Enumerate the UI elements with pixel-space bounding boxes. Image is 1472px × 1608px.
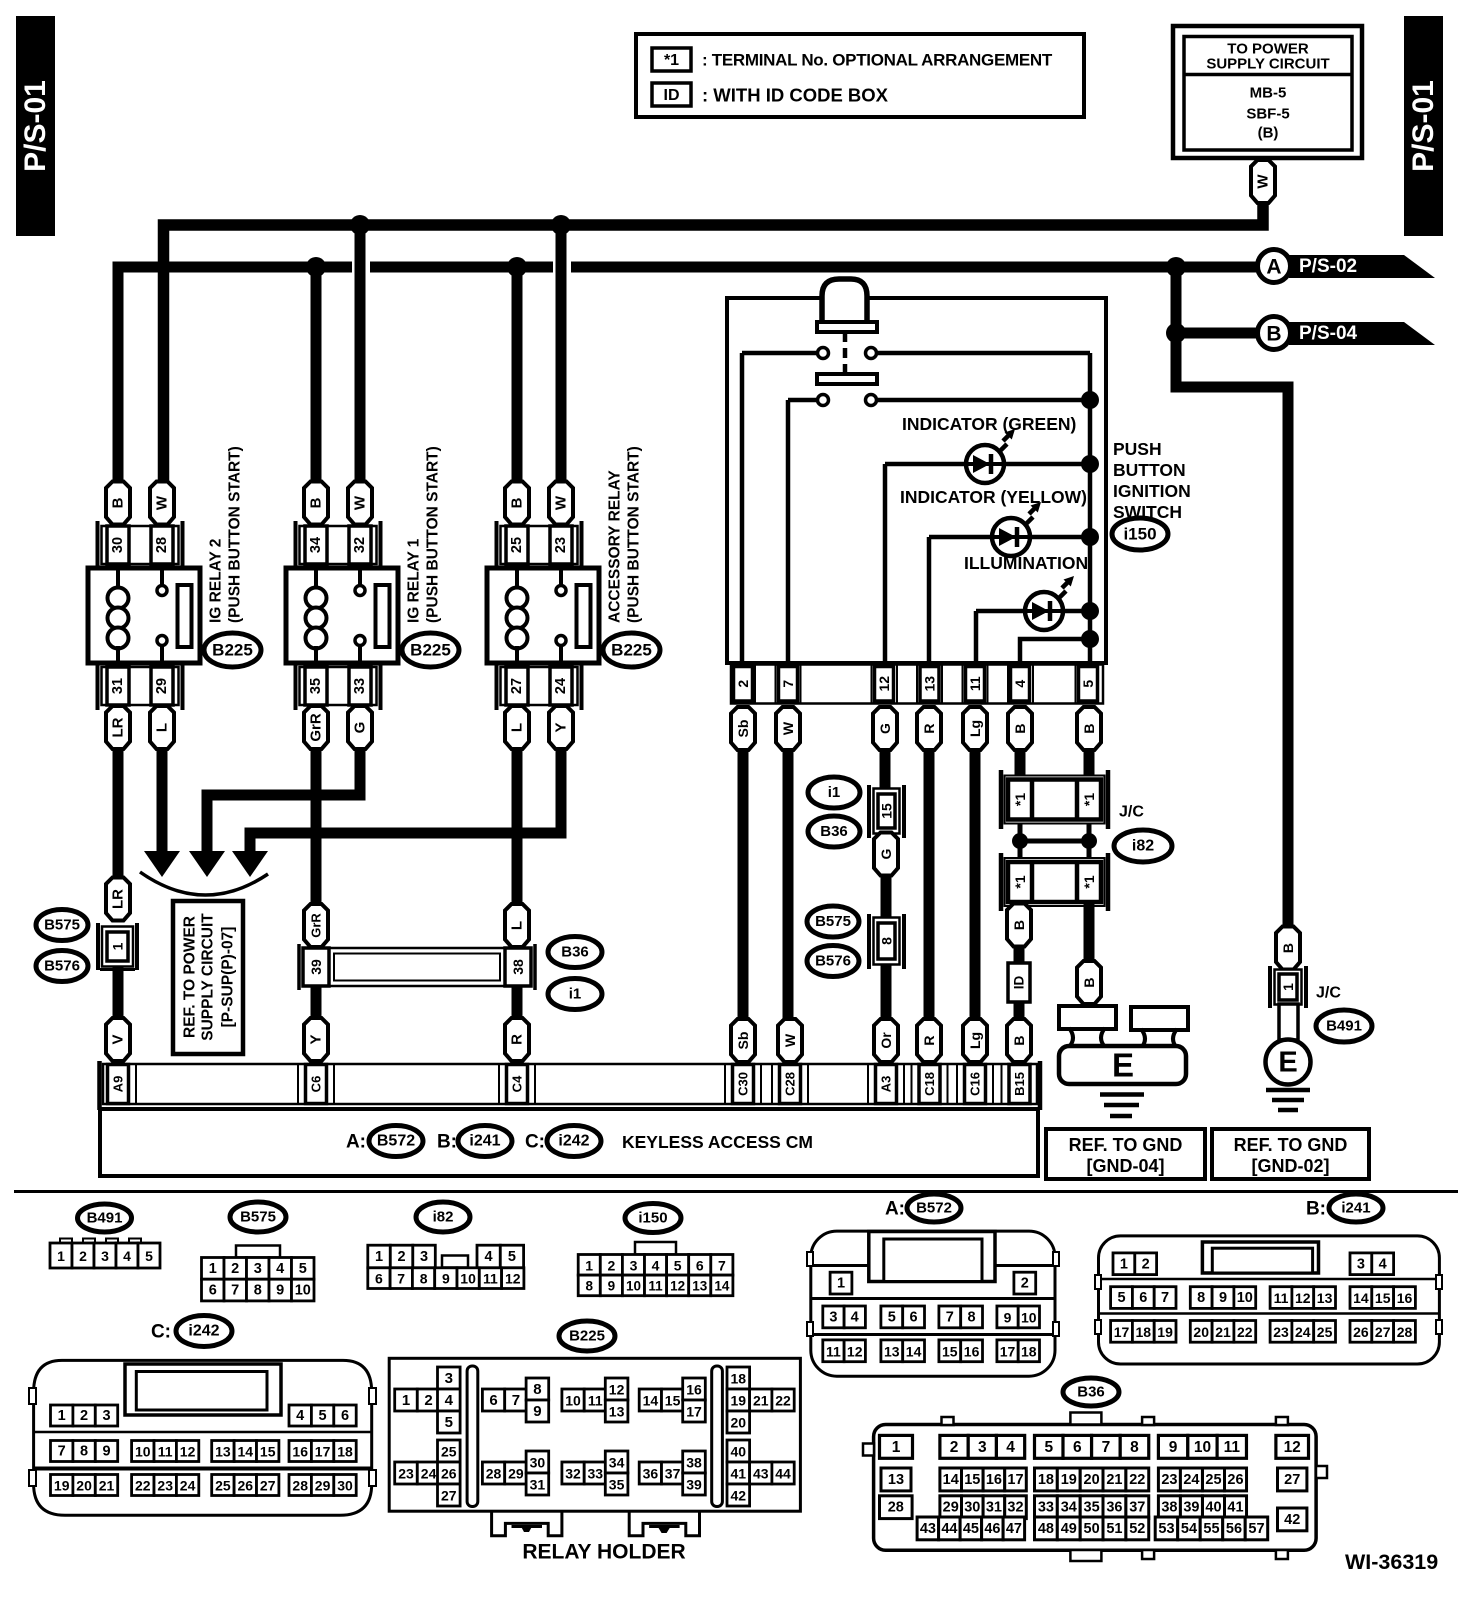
- svg-text:12: 12: [1284, 1439, 1301, 1456]
- svg-text:*1: *1: [1081, 793, 1097, 806]
- svg-text:7: 7: [231, 1283, 239, 1299]
- svg-text:14: 14: [714, 1278, 730, 1293]
- svg-text:B576: B576: [44, 958, 80, 975]
- svg-text:2: 2: [1142, 1256, 1150, 1272]
- terminal W from power supply: [1251, 160, 1275, 203]
- svg-text:B: B: [1012, 723, 1028, 733]
- svg-text:24: 24: [180, 1478, 196, 1494]
- svg-text:*1: *1: [1081, 875, 1097, 888]
- svg-text:35: 35: [609, 1477, 625, 1493]
- svg-text:19: 19: [1157, 1324, 1173, 1340]
- svg-text:i241: i241: [1341, 1200, 1370, 1217]
- page banner P/S-01 left: [16, 16, 55, 236]
- svg-text:9: 9: [533, 1403, 541, 1420]
- ref to gnd GND-04 box: [1046, 1129, 1205, 1179]
- wire W power bus: [164, 203, 1264, 482]
- svg-text:8: 8: [1130, 1439, 1139, 1456]
- svg-text:37: 37: [665, 1466, 681, 1482]
- svg-text:30: 30: [110, 537, 126, 553]
- svg-text:W: W: [780, 721, 796, 735]
- svg-text:15: 15: [964, 1472, 980, 1488]
- svg-text:20: 20: [1084, 1472, 1100, 1488]
- svg-text:B491: B491: [1326, 1018, 1362, 1035]
- svg-text:4: 4: [1006, 1439, 1015, 1456]
- svg-text:A9: A9: [111, 1076, 126, 1093]
- wire pin2 column: [740, 353, 745, 664]
- svg-text:16: 16: [1397, 1290, 1413, 1306]
- svg-text:11: 11: [648, 1278, 663, 1293]
- svg-text:3: 3: [254, 1261, 262, 1277]
- svg-text:3: 3: [829, 1309, 837, 1325]
- svg-text:B: B: [1011, 1035, 1027, 1045]
- svg-text:18: 18: [731, 1371, 747, 1387]
- svg-text:R: R: [921, 723, 937, 733]
- svg-text:26: 26: [1227, 1472, 1243, 1488]
- svg-text:24: 24: [1295, 1324, 1311, 1340]
- svg-text:35: 35: [308, 678, 324, 694]
- wire Y relay K3 to power supply ref arrow: [250, 748, 561, 853]
- svg-text:27: 27: [509, 678, 525, 694]
- junction connector i82 row 1: [1001, 770, 1108, 829]
- svg-text:Sb: Sb: [735, 1032, 751, 1050]
- arrow B P/S-04: [1258, 317, 1436, 350]
- svg-text:GrR: GrR: [309, 913, 324, 938]
- svg-text:25: 25: [441, 1444, 457, 1460]
- oval B575: [36, 910, 88, 941]
- svg-text:G: G: [352, 722, 369, 734]
- wire Lg: [970, 750, 981, 1019]
- svg-text:38: 38: [686, 1455, 702, 1471]
- page banner P/S-01 right: [1404, 16, 1443, 236]
- svg-text:12: 12: [670, 1278, 685, 1293]
- wire G to pin 8: [881, 875, 892, 919]
- svg-text:42: 42: [1284, 1512, 1300, 1528]
- connector B491 pinout: [50, 1239, 160, 1269]
- svg-text:34: 34: [1061, 1500, 1077, 1516]
- svg-text:28: 28: [1397, 1324, 1413, 1340]
- LED illumination: [1025, 576, 1074, 630]
- svg-text:9: 9: [608, 1278, 616, 1293]
- push button movable bar: [817, 374, 877, 384]
- wire to relay K3 coil: [512, 267, 523, 482]
- svg-text:32: 32: [565, 1466, 581, 1482]
- wire B to ID: [1014, 946, 1025, 964]
- svg-text:57: 57: [1248, 1521, 1264, 1537]
- svg-text:34: 34: [308, 537, 324, 553]
- svg-text:10: 10: [460, 1271, 476, 1287]
- svg-text:42: 42: [731, 1488, 747, 1504]
- svg-text:B:: B:: [1306, 1199, 1326, 1220]
- svg-text:V: V: [110, 1034, 127, 1044]
- svg-text:54: 54: [1181, 1521, 1197, 1537]
- svg-text:(PUSH BUTTON START): (PUSH BUTTON START): [227, 446, 244, 623]
- svg-text:Y: Y: [553, 722, 570, 732]
- svg-text:9: 9: [102, 1444, 110, 1460]
- svg-text:12: 12: [505, 1271, 521, 1287]
- svg-text:3: 3: [102, 1408, 110, 1424]
- oval B572 pinout A: [885, 1194, 961, 1222]
- svg-text:7: 7: [1102, 1439, 1111, 1456]
- svg-text:2: 2: [735, 680, 751, 688]
- svg-text:MB-5: MB-5: [1250, 85, 1287, 102]
- svg-text:G: G: [878, 848, 894, 859]
- svg-text:13: 13: [884, 1343, 900, 1359]
- svg-text:44: 44: [941, 1521, 957, 1537]
- svg-text:2: 2: [608, 1257, 616, 1273]
- svg-text:31: 31: [986, 1500, 1002, 1516]
- svg-text:E: E: [1278, 1047, 1297, 1079]
- junction connector 1 B491: [1270, 966, 1306, 1008]
- svg-text:ACCESSORY RELAY: ACCESSORY RELAY: [607, 470, 624, 623]
- svg-text:28: 28: [888, 1500, 904, 1516]
- svg-text:26: 26: [1353, 1324, 1369, 1340]
- svg-text:: TERMINAL No. OPTIONAL ARRANG: : TERMINAL No. OPTIONAL ARRANGEMENT: [702, 51, 1053, 70]
- svg-text:4: 4: [1012, 680, 1028, 688]
- svg-text:26: 26: [441, 1466, 457, 1482]
- svg-text:1: 1: [1120, 1256, 1128, 1272]
- svg-text:11: 11: [967, 676, 983, 691]
- svg-text:Y: Y: [308, 1034, 325, 1044]
- svg-text:WI-36319: WI-36319: [1345, 1550, 1438, 1574]
- connector B225 relay holder pinout: [389, 1358, 800, 1511]
- svg-text:11: 11: [1224, 1439, 1241, 1456]
- svg-text:22: 22: [1129, 1472, 1145, 1488]
- wire W: [783, 750, 794, 1019]
- wire pin7 column: [786, 400, 791, 664]
- svg-text:1: 1: [585, 1257, 593, 1273]
- svg-text:17: 17: [1000, 1343, 1016, 1359]
- svg-text:7: 7: [512, 1392, 520, 1409]
- svg-text:19: 19: [1061, 1472, 1077, 1488]
- svg-text:6: 6: [696, 1257, 704, 1273]
- svg-text:[GND-02]: [GND-02]: [1251, 1156, 1329, 1176]
- svg-text:2: 2: [79, 1248, 87, 1264]
- svg-text:i241: i241: [469, 1133, 500, 1150]
- svg-text:15: 15: [1375, 1290, 1391, 1306]
- svg-text:27: 27: [1375, 1324, 1391, 1340]
- svg-text:48: 48: [1038, 1521, 1054, 1537]
- ignition switch connector strip: [731, 665, 1103, 704]
- oval B491 pinout: [78, 1204, 132, 1232]
- oval B36: [548, 937, 602, 968]
- relay holder feet: [492, 1511, 700, 1536]
- svg-text:6: 6: [489, 1392, 497, 1409]
- svg-text:13: 13: [1317, 1290, 1333, 1306]
- svg-text:6: 6: [341, 1408, 349, 1424]
- svg-text:36: 36: [1106, 1500, 1122, 1516]
- svg-text:13: 13: [692, 1278, 708, 1293]
- oval B575 pinout: [230, 1202, 286, 1232]
- svg-text:16: 16: [986, 1472, 1002, 1488]
- svg-text:1: 1: [110, 942, 126, 950]
- junction dot: [1081, 528, 1099, 546]
- svg-text:53: 53: [1158, 1521, 1174, 1537]
- svg-text:8: 8: [420, 1271, 428, 1287]
- svg-text:C:: C:: [151, 1322, 171, 1343]
- svg-text:4: 4: [1379, 1256, 1387, 1272]
- svg-text:PUSH: PUSH: [1113, 439, 1162, 459]
- svg-text:B: B: [308, 497, 325, 508]
- svg-text:R: R: [921, 1035, 937, 1045]
- svg-text:27: 27: [441, 1488, 457, 1504]
- svg-text:32: 32: [1007, 1500, 1023, 1516]
- svg-text:i82: i82: [1132, 838, 1154, 855]
- svg-text:8: 8: [80, 1444, 88, 1460]
- svg-text:5: 5: [299, 1261, 307, 1277]
- oval i82: [1114, 830, 1172, 862]
- svg-text:W: W: [1255, 174, 1272, 189]
- svg-text:44: 44: [775, 1466, 791, 1482]
- svg-text:B575: B575: [815, 913, 851, 930]
- legend box: [636, 34, 1084, 117]
- svg-text:i150: i150: [638, 1210, 667, 1227]
- svg-text:R: R: [509, 1034, 526, 1045]
- svg-text:GrR: GrR: [308, 713, 325, 742]
- svg-text:8: 8: [1197, 1290, 1205, 1306]
- wire G relay K2 to power supply ref arrow: [207, 748, 360, 853]
- svg-text:7: 7: [946, 1309, 954, 1325]
- svg-text:B: B: [1081, 723, 1097, 733]
- svg-text:5: 5: [1080, 680, 1096, 688]
- svg-text:i242: i242: [558, 1133, 589, 1150]
- arrow head: [144, 851, 180, 877]
- svg-text:11: 11: [826, 1343, 841, 1359]
- svg-text:5: 5: [1044, 1439, 1053, 1456]
- wire B to JC right: [1084, 750, 1095, 781]
- oval i82 pinout: [416, 1202, 470, 1232]
- connector pin 1 B575/B576: [98, 923, 137, 970]
- svg-text:2: 2: [231, 1261, 239, 1277]
- svg-text:24: 24: [553, 678, 569, 694]
- svg-text:9: 9: [442, 1271, 450, 1287]
- svg-text:51: 51: [1106, 1521, 1122, 1537]
- arrow head: [189, 851, 225, 877]
- svg-text:11: 11: [588, 1393, 603, 1409]
- connector pins 39 38 B36/i1: [299, 944, 535, 990]
- svg-text:29: 29: [154, 678, 170, 694]
- connector i150 pinout: [578, 1242, 733, 1296]
- oval B36: [808, 816, 860, 847]
- svg-text:33: 33: [352, 678, 368, 694]
- svg-text:20: 20: [76, 1478, 92, 1494]
- svg-text:B: B: [1280, 943, 1296, 953]
- svg-text:31: 31: [110, 678, 126, 694]
- terminal L: [505, 904, 529, 947]
- wire B ground bus: [118, 267, 1258, 482]
- svg-text:12: 12: [876, 676, 892, 692]
- svg-text:21: 21: [1106, 1472, 1122, 1488]
- wire Sb: [738, 750, 749, 1019]
- svg-text:5: 5: [674, 1257, 682, 1273]
- svg-text:3: 3: [1357, 1256, 1365, 1272]
- terminal G: [874, 833, 898, 876]
- svg-text:1: 1: [837, 1276, 845, 1292]
- svg-text:22: 22: [775, 1393, 791, 1409]
- svg-text:B15: B15: [1012, 1072, 1027, 1096]
- svg-text:REF. TO POWER: REF. TO POWER: [182, 916, 199, 1038]
- svg-text:15: 15: [942, 1343, 958, 1359]
- svg-text:i1: i1: [569, 986, 582, 1003]
- svg-text:4: 4: [445, 1392, 454, 1409]
- svg-text:21: 21: [1215, 1324, 1231, 1340]
- svg-text:E: E: [1112, 1047, 1134, 1084]
- svg-text:INDICATOR (YELLOW): INDICATOR (YELLOW): [900, 487, 1087, 507]
- svg-text:ILLUMINATION: ILLUMINATION: [964, 553, 1088, 573]
- svg-text:27: 27: [260, 1478, 276, 1494]
- svg-text:29: 29: [315, 1478, 331, 1494]
- svg-text:1: 1: [375, 1249, 383, 1265]
- connector pin 8 B575/B576: [869, 914, 904, 969]
- separator line: [14, 1190, 1458, 1193]
- svg-text:11: 11: [1274, 1290, 1289, 1306]
- wire L relay K3 to pin 38: [512, 748, 523, 906]
- wire L relay K1 to power supply ref arrow: [157, 748, 168, 853]
- push button dome: [822, 279, 867, 322]
- connector B572 pinout: [807, 1231, 1059, 1376]
- relay K1 IG RELAY 2 B225: [88, 446, 261, 749]
- svg-text:14: 14: [643, 1393, 659, 1409]
- terminal B: [1077, 707, 1101, 750]
- svg-text:1: 1: [58, 1408, 66, 1424]
- connector i82 pinout: [368, 1245, 524, 1288]
- svg-text:A3: A3: [879, 1076, 894, 1093]
- relay K2 IG RELAY 1 B225: [286, 446, 459, 749]
- svg-text:2: 2: [424, 1392, 432, 1409]
- ID code box: [1008, 963, 1030, 1002]
- svg-text:14: 14: [238, 1444, 254, 1460]
- terminals into keyless access CM: [731, 1019, 1031, 1062]
- svg-text:5: 5: [888, 1309, 896, 1325]
- wire LR to connector 1: [113, 748, 124, 879]
- svg-text:7: 7: [718, 1257, 726, 1273]
- svg-text:30: 30: [530, 1455, 546, 1471]
- arc under arrows: [140, 872, 268, 895]
- junction dot: [1081, 391, 1099, 409]
- svg-text:18: 18: [1136, 1324, 1152, 1340]
- oval i1: [548, 979, 602, 1010]
- svg-text:L: L: [509, 723, 526, 732]
- svg-text:8: 8: [254, 1283, 262, 1299]
- terminal R: [917, 707, 941, 750]
- wire 1 to V: [113, 966, 124, 1019]
- svg-text:22: 22: [1237, 1324, 1253, 1340]
- svg-text:32: 32: [352, 537, 368, 553]
- svg-text:20: 20: [731, 1415, 747, 1431]
- svg-text:19: 19: [731, 1393, 747, 1409]
- svg-text:13: 13: [215, 1444, 231, 1460]
- wire yellow led: [929, 535, 992, 540]
- svg-text:IG RELAY 2: IG RELAY 2: [208, 539, 225, 623]
- switch upper contacts: [742, 348, 1090, 359]
- svg-text:5: 5: [1117, 1290, 1125, 1306]
- svg-text:12: 12: [609, 1382, 625, 1398]
- svg-text:10: 10: [565, 1393, 581, 1409]
- svg-text:B: B: [1266, 323, 1281, 346]
- svg-text:18: 18: [1038, 1472, 1054, 1488]
- svg-text:24: 24: [421, 1466, 437, 1482]
- svg-text:B36: B36: [561, 944, 589, 961]
- svg-text:49: 49: [1061, 1521, 1077, 1537]
- wire stub to arrow B: [1176, 328, 1257, 339]
- svg-text:W: W: [553, 495, 570, 510]
- svg-text:B36: B36: [820, 823, 848, 840]
- svg-text:4: 4: [296, 1408, 304, 1424]
- svg-text:SUPPLY CIRCUIT: SUPPLY CIRCUIT: [200, 913, 217, 1041]
- svg-text:REF. TO GND: REF. TO GND: [1234, 1135, 1348, 1155]
- svg-text:30: 30: [337, 1478, 353, 1494]
- svg-text:39: 39: [308, 959, 324, 975]
- junction dot: [306, 257, 326, 277]
- connector pin 15 i1/B36: [869, 785, 904, 838]
- svg-text:LR: LR: [110, 717, 127, 737]
- svg-text:16: 16: [686, 1382, 702, 1398]
- svg-text:IG RELAY 1: IG RELAY 1: [406, 538, 423, 623]
- svg-text:2: 2: [950, 1439, 959, 1456]
- oval i242 pinout C: [151, 1316, 232, 1347]
- svg-text:21: 21: [753, 1393, 769, 1409]
- svg-text:18: 18: [1021, 1343, 1037, 1359]
- svg-text:3: 3: [101, 1248, 109, 1264]
- svg-text:17: 17: [315, 1444, 331, 1460]
- svg-text:C6: C6: [309, 1076, 324, 1093]
- svg-text:Or: Or: [878, 1032, 894, 1049]
- svg-text:7: 7: [58, 1444, 66, 1460]
- svg-text:52: 52: [1129, 1521, 1145, 1537]
- svg-text:56: 56: [1226, 1521, 1242, 1537]
- svg-text:B: B: [1011, 920, 1027, 930]
- svg-text:Lg: Lg: [967, 1032, 983, 1049]
- svg-text:A: A: [1266, 256, 1281, 279]
- svg-text:1: 1: [1280, 983, 1296, 991]
- junction dot: [1081, 455, 1099, 473]
- svg-text:W: W: [154, 495, 171, 510]
- junction dot: [507, 257, 527, 277]
- svg-text:L: L: [509, 921, 526, 930]
- svg-text:C16: C16: [968, 1072, 983, 1096]
- svg-text:6: 6: [910, 1309, 918, 1325]
- wire GrR to pin 39: [311, 748, 322, 906]
- svg-text:C4: C4: [510, 1075, 525, 1092]
- oval i150: [1112, 518, 1168, 550]
- svg-text:26: 26: [238, 1478, 254, 1494]
- svg-text:23: 23: [157, 1478, 173, 1494]
- svg-text:13: 13: [888, 1472, 904, 1488]
- svg-text:10: 10: [1021, 1309, 1037, 1325]
- keyless access CM box: [100, 1109, 1038, 1176]
- svg-text:28: 28: [154, 537, 170, 553]
- svg-text:6: 6: [209, 1283, 217, 1299]
- svg-text:SBF-5: SBF-5: [1246, 106, 1289, 123]
- terminal W: [776, 707, 800, 750]
- svg-text:23: 23: [1273, 1324, 1289, 1340]
- oval B225 pinout: [559, 1321, 615, 1351]
- connector B36 pinout: [863, 1413, 1327, 1562]
- oval B575: [807, 906, 859, 937]
- svg-text:16: 16: [292, 1444, 308, 1460]
- svg-text:10: 10: [1237, 1290, 1253, 1306]
- push button stem dashed: [843, 332, 848, 375]
- svg-text:i1: i1: [828, 784, 841, 801]
- svg-text:33: 33: [588, 1466, 604, 1482]
- svg-text:i150: i150: [1123, 525, 1156, 544]
- svg-text:(PUSH BUTTON START): (PUSH BUTTON START): [626, 446, 643, 623]
- svg-text:B575: B575: [240, 1209, 276, 1226]
- svg-text:17: 17: [1007, 1472, 1023, 1488]
- terminal B to JC B491: [1276, 927, 1300, 970]
- junction dot: [1166, 257, 1186, 277]
- svg-text:14: 14: [943, 1472, 959, 1488]
- wire 39 to Y: [311, 986, 322, 1019]
